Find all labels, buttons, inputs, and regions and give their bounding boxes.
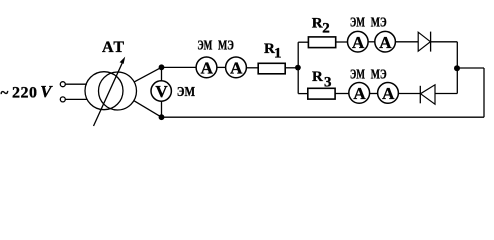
bottom branch: wire left rail to R3 <box>298 93 308 95</box>
terminal X1 <box>60 82 65 87</box>
svg-text:МЭ: МЭ <box>371 14 387 30</box>
wire bottom terminal to AT <box>65 98 86 100</box>
wire VD1 to right rail <box>431 41 458 43</box>
right rail wire <box>456 42 458 94</box>
autotransformer AT primary winding <box>85 72 123 110</box>
svg-text:А: А <box>379 33 392 52</box>
resistor R2 <box>308 37 335 48</box>
resistor R3 <box>308 88 335 99</box>
wire top node to ammeter A1 <box>162 66 197 68</box>
svg-text:А: А <box>230 59 243 78</box>
svg-text:А: А <box>382 84 395 103</box>
svg-text:1: 1 <box>274 45 282 61</box>
svg-text:220: 220 <box>12 84 37 101</box>
svg-text:МЭ: МЭ <box>218 37 234 53</box>
diode VD2 (reversed) <box>420 85 435 104</box>
label R3 <box>312 69 332 91</box>
svg-text:МЭ: МЭ <box>371 66 387 82</box>
ammeter A3 <box>348 31 369 52</box>
svg-text:2: 2 <box>322 20 330 36</box>
wire VD2 to right rail <box>435 93 457 95</box>
outer rail wire down <box>483 68 485 117</box>
ammeter A1 <box>196 57 217 78</box>
wire A2 to R1 <box>246 67 258 69</box>
autotransformer AT secondary winding <box>99 72 137 110</box>
svg-text:ЭМ: ЭМ <box>177 84 195 99</box>
wire top terminal to AT <box>65 83 86 85</box>
voltmeter V1 <box>151 81 171 101</box>
svg-text:А: А <box>352 33 365 52</box>
wire voltmeter to bottom node <box>161 101 163 117</box>
wire A4 to diode VD1 <box>395 41 418 43</box>
svg-text:V: V <box>155 82 168 101</box>
top branch: wire left rail to R2 <box>298 41 308 43</box>
wire A1 to A2 <box>217 66 226 68</box>
svg-text:А: А <box>201 59 214 78</box>
ammeter A6 <box>378 83 399 104</box>
label R1 <box>264 41 282 62</box>
wire right node to outer rail <box>457 67 484 69</box>
wire A5 to A6 <box>370 93 378 95</box>
node right rail junction <box>454 65 460 71</box>
left rail wire <box>297 42 299 93</box>
diode VD1 <box>418 32 430 52</box>
autotransformer AT adjustment arrow <box>94 57 126 126</box>
svg-text:ЭМ: ЭМ <box>350 13 365 30</box>
wire R2 to A3 <box>336 41 348 43</box>
svg-text:~: ~ <box>1 86 9 102</box>
svg-text:А: А <box>353 84 366 103</box>
svg-text:АТ: АТ <box>102 39 124 56</box>
bottom return wire <box>162 116 485 118</box>
wire R1 to left rail node <box>285 67 298 69</box>
svg-text:R: R <box>312 69 323 85</box>
wire AT to bottom node <box>134 101 162 118</box>
svg-text:R: R <box>312 15 323 31</box>
ammeter A4 <box>375 31 396 52</box>
svg-text:V: V <box>40 82 53 101</box>
svg-text:ЭМ: ЭМ <box>197 37 212 54</box>
node top junction <box>159 64 165 70</box>
wire R3 to A5 <box>335 93 349 95</box>
ammeter A2 <box>226 57 247 78</box>
resistor R1 <box>258 63 285 74</box>
source label ~220 V <box>1 82 54 102</box>
wire AT to top node <box>134 67 161 82</box>
node bottom junction <box>159 114 165 120</box>
terminal X2 <box>60 97 65 102</box>
wire top node to voltmeter <box>161 67 163 81</box>
label R2 <box>312 15 330 36</box>
node left rail junction <box>295 65 301 71</box>
svg-text:ЭМ: ЭМ <box>350 65 365 82</box>
wire A6 to diode VD2 <box>398 93 420 95</box>
wire A3 to A4 <box>368 41 375 43</box>
ammeter A5 <box>349 83 370 104</box>
